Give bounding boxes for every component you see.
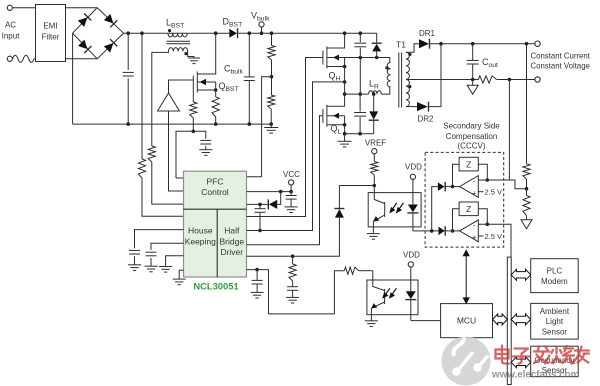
op-amp U2 channel1 [460, 176, 479, 198]
arrow bus to PLC modem [511, 269, 531, 280]
node feedback resistor tap [291, 254, 295, 258]
wire sense loop to PFC pin [176, 177, 184, 179]
node snubber diode H bottom [375, 56, 379, 60]
fuse squiggle on AC neutral [13, 55, 34, 62]
wire VCC diode anode up [277, 192, 281, 205]
core lines LBST [167, 40, 191, 42]
ground opto2 emitter [365, 320, 378, 322]
ground arrow divider [521, 220, 532, 229]
phototransistor opto2 [373, 271, 385, 291]
node snubber cap H bottom [359, 56, 363, 60]
inductor LBST secondary winding [169, 48, 188, 52]
node QH drain rail [343, 31, 347, 35]
terminal output negative [535, 77, 540, 82]
wire input cap down [127, 33, 129, 70]
capacitor snubber QH [359, 33, 361, 42]
svg-text:Driver: Driver [220, 247, 243, 257]
EMI Filter block [36, 5, 66, 62]
phase dot T1 secondary lower [408, 85, 411, 88]
terminal Vbulk [259, 22, 264, 27]
node Cbulk top [248, 31, 252, 35]
ground housekeeping 3 [159, 266, 172, 268]
resistor output divider lower [526, 189, 528, 196]
wire driver high gate [247, 58, 319, 217]
svg-text:PFC: PFC [207, 176, 224, 186]
node sense loop junction [192, 130, 196, 134]
node rectifier join [439, 42, 443, 46]
impedance Z1 block [459, 157, 478, 171]
svg-text:Keeping: Keeping [185, 236, 216, 246]
wire bridge negative to bottom rail [72, 33, 74, 124]
phase dot T1 secondary upper [408, 53, 411, 56]
wire LBST sense to PFC pin [152, 162, 184, 204]
diode opto1 feedback [335, 209, 344, 218]
op-amp U3 channel2 [460, 220, 479, 242]
diode snubber QL [373, 94, 375, 111]
phase dot T1 primary [385, 66, 388, 69]
IC NCL30051 block [184, 171, 247, 277]
node shunt sense [508, 78, 512, 82]
ground main rail [270, 124, 272, 127]
ground housekeeping cap 2 [145, 265, 158, 267]
node bulk cap input [126, 31, 130, 35]
MCU block [441, 304, 493, 338]
node bridge wire to midpoint [343, 80, 347, 84]
wire EMI filter to bridge bottom [66, 58, 98, 60]
svg-text:Light: Light [546, 317, 564, 326]
node Cout bottom [471, 78, 475, 82]
resistor QBST source sense [212, 97, 219, 117]
wire QH source row to transformer [336, 58, 390, 63]
node QL ground tap [343, 132, 347, 136]
svg-text:+: + [472, 188, 477, 197]
node rail end ground [269, 122, 273, 126]
svg-text:AC: AC [5, 21, 16, 30]
wire amp input from PFC control [169, 111, 184, 191]
optocoupler U4 box [367, 280, 418, 315]
arrow bus to occupancy sensor [511, 357, 531, 368]
wire opamp2 inverting input [478, 224, 511, 257]
wire Z1 left feedback [453, 164, 460, 186]
wire housekeeping cap pin 1 [135, 230, 184, 249]
diode DBST [229, 29, 237, 38]
node opamp1 input [451, 185, 455, 189]
capacitor dimming pin filter [256, 270, 258, 281]
ground VCC cap [285, 206, 298, 208]
arrow MCU to bus [493, 314, 508, 325]
ground sense filter [199, 149, 212, 151]
capacitor housekeeping 1 [129, 249, 140, 251]
capacitor snubber QL [359, 94, 361, 111]
op-amp PFC current amplifier [158, 93, 180, 111]
svg-text:2.5 V: 2.5 V [485, 188, 503, 197]
bus bar [507, 257, 511, 384]
watermark text elecfans [496, 346, 590, 364]
resistor output divider upper [526, 44, 528, 164]
svg-text:VCC: VCC [283, 170, 300, 179]
bridge diode upper-right [104, 14, 118, 28]
svg-text:House: House [188, 226, 213, 236]
svg-text:+: + [472, 233, 477, 242]
svg-text:-: - [473, 221, 476, 230]
wire QBST gate down [192, 89, 194, 102]
svg-text:Constant Current: Constant Current [531, 52, 591, 61]
svg-text:Z: Z [466, 160, 471, 170]
resistor opto2 collector [344, 267, 358, 274]
wire rail DBST to Vbulk section [238, 32, 377, 34]
ground LBST secondary [188, 57, 200, 59]
wire driver low gate [247, 116, 320, 245]
node QH source [343, 65, 347, 69]
node output divider top [525, 42, 529, 46]
bridge diode lower-left [78, 39, 92, 53]
wire opto1 led to CCCV input [413, 230, 445, 232]
svg-text:Bridge: Bridge [220, 236, 245, 246]
wire DR2 cathode to output rail [429, 44, 442, 107]
wire housekeeping ground pin 3 [166, 256, 184, 267]
svg-text:2.5 V: 2.5 V [485, 232, 503, 241]
diode VCC charge [269, 200, 277, 209]
diode snubber QH [376, 33, 378, 42]
svg-text:VDD: VDD [405, 162, 422, 171]
svg-text:Filter: Filter [42, 33, 60, 42]
dashed box CCCV [425, 152, 504, 247]
diode CCCV channel1 [438, 182, 445, 191]
Occupancy Sensor block [531, 346, 579, 376]
node Vbulk terminal stub [260, 31, 264, 35]
wire Z2 right to inverting input [478, 209, 487, 225]
svg-text:Z: Z [466, 204, 471, 214]
wire VCC pin row [247, 191, 292, 193]
wire Z1 right to inverting input [478, 164, 487, 180]
resistor current shunt [478, 76, 496, 83]
node snubber cap H rail [359, 31, 363, 35]
node opamp2 input join [486, 223, 490, 227]
impedance Z2 block [459, 202, 478, 216]
Ambient Light Sensor block [531, 303, 579, 339]
capacitor housekeeping 2 [146, 251, 157, 253]
node AC sense divider tap [140, 31, 144, 35]
node CCCV channel2 input [451, 229, 455, 233]
arrow MCU to CCCV [463, 250, 469, 303]
ground feedback filter [286, 296, 299, 298]
svg-text:VREF: VREF [365, 139, 386, 148]
node QBST source [214, 88, 218, 92]
diode DR2 [417, 102, 428, 111]
wire feedback opto row [247, 218, 340, 256]
wire bottom ground rail [73, 123, 272, 125]
wire opto2 led to MCU [411, 320, 441, 322]
resistor feedback divider [292, 256, 294, 264]
transistor QH [319, 57, 323, 59]
capacitor Cout [472, 44, 474, 61]
terminal AC line bottom [7, 56, 12, 61]
svg-text:Ambient: Ambient [540, 307, 570, 316]
svg-text:EMI: EMI [43, 22, 57, 31]
svg-text:DR2: DR2 [417, 115, 434, 124]
resistor bulk divider upper [268, 46, 275, 61]
light arrows opto2 [383, 288, 396, 297]
wire current sense loop [176, 131, 206, 178]
bridge diode upper-left [77, 13, 91, 27]
wire Vbulk stub [261, 27, 263, 33]
node Cout top [471, 42, 475, 46]
PLC Modem block [531, 259, 579, 293]
svg-text:-: - [473, 176, 476, 185]
terminal VREF [372, 149, 377, 154]
node QL source [343, 123, 347, 127]
ground dimming pin filter [251, 291, 264, 293]
LED opto2 [410, 267, 412, 291]
wire dimming loop pin [247, 270, 345, 314]
wire output negative rail [497, 79, 535, 81]
node VCC cap to driver row [258, 229, 262, 233]
capacitor input filter [123, 71, 134, 73]
resistor bulk divider lower [268, 95, 275, 109]
wire housekeeping cap pin 2 [151, 243, 184, 250]
wire T1 secondary top lead [406, 44, 419, 53]
svg-text:(CCCV): (CCCV) [458, 141, 486, 150]
node opamp1 input join [486, 178, 490, 182]
wire opamp1 inverting input [478, 180, 526, 189]
capacitor VCC decouple [259, 204, 261, 208]
node bulk divider tap [270, 75, 274, 79]
bridge diode lower-right [103, 39, 117, 53]
wire driver bridge node [247, 82, 345, 231]
wire Z2 left feedback [453, 209, 460, 231]
wire AC sense resistor to PFC pin [142, 178, 184, 216]
wire EMI filter to bridge top [66, 7, 98, 9]
svg-text:Constant Voltage: Constant Voltage [531, 62, 590, 71]
wire T1 secondary bottom lead [406, 106, 417, 108]
wire divider to tap [271, 60, 273, 77]
transformer T1 secondary upper [406, 52, 409, 79]
wire main rectified rail [124, 32, 230, 34]
svg-text:Control: Control [201, 187, 229, 197]
node CCCV input split [430, 229, 434, 233]
transistor QL [319, 115, 323, 117]
node snubber diode L top [372, 92, 376, 96]
node VCC stub [289, 190, 293, 194]
terminal VDD opto1 [410, 174, 415, 179]
ground housekeeping 4 [173, 278, 186, 280]
svg-text:T1: T1 [396, 40, 406, 50]
wire AC sense down to resistor [141, 33, 143, 159]
capacitor VCC [290, 192, 292, 196]
svg-text:MCU: MCU [457, 316, 476, 326]
ground half bridge [344, 134, 346, 142]
transformer T1 secondary lower [406, 79, 409, 106]
svg-text:PLC: PLC [547, 266, 563, 275]
node Cbulk bottom [248, 122, 252, 126]
wire CCCV channel1 input [432, 187, 438, 231]
diode DR1 [419, 39, 429, 48]
diode CCCV channel2 [439, 227, 445, 236]
stub opamp2 noninverting [478, 235, 483, 237]
node input cap bottom [126, 122, 130, 126]
wire VCC stub up [290, 185, 292, 192]
node QL drain midpoint [343, 92, 347, 96]
resistor QBST gate [190, 102, 197, 118]
node dimming cap tap [255, 268, 259, 272]
bridge rectifier diamond [73, 8, 124, 59]
wire AC bottom to EMI filter [34, 58, 36, 60]
svg-text:Half: Half [224, 226, 240, 236]
node LR row cap junction [359, 92, 363, 96]
node VCC diode cathode [258, 203, 262, 207]
wire LBST secondary right to ground [188, 51, 194, 58]
capacitor sense filter [200, 139, 211, 141]
node bulk divider top [270, 31, 274, 35]
wire AC top input to EMI filter [10, 7, 36, 9]
node opto1 collector [373, 184, 377, 188]
transformer T1 primary winding [389, 62, 392, 64]
svg-text:Sensor: Sensor [542, 327, 568, 336]
resistor AC sense upper [138, 159, 145, 178]
resistor VREF pullup [373, 154, 375, 162]
arrow bus to ambient sensor [511, 314, 531, 325]
node VCC junction [279, 190, 283, 194]
inductor LBST primary winding [168, 33, 187, 37]
wire T1 center tap lead [406, 79, 478, 81]
LED opto1 [412, 179, 414, 204]
phototransistor opto1 [374, 186, 384, 204]
node snubber cap L bottom [358, 132, 362, 136]
capacitor feedback filter [292, 281, 294, 287]
transistor QBST [192, 76, 194, 90]
node output divider tap [525, 187, 529, 191]
watermark logo circle [442, 330, 491, 386]
svg-text:Secondary Side: Secondary Side [443, 121, 500, 130]
wire opto1 node to feedback diode [339, 185, 374, 187]
svg-text:VDD: VDD [403, 250, 420, 259]
terminal AC line top [7, 5, 12, 10]
node QBST source resistor to rail [214, 122, 218, 126]
wire divider tap to PFC feedback pin [247, 77, 272, 177]
wire LBST secondary left return [152, 51, 169, 146]
stub opamp1 noninverting [478, 191, 483, 193]
ground opto1 emitter [367, 233, 380, 235]
capacitor Cbulk [248, 33, 250, 77]
resistor LBST sense [148, 146, 155, 162]
wire output positive rail [430, 43, 535, 45]
svg-text:NCL30051: NCL30051 [193, 281, 238, 292]
svg-text:Modem: Modem [541, 277, 568, 286]
terminal output positive [535, 41, 540, 46]
wire divider bottom to rail [270, 109, 272, 124]
ground arrow output [472, 80, 474, 86]
svg-text:DR1: DR1 [419, 29, 436, 38]
phase dot LBST primary [168, 29, 171, 32]
svg-text:Compensation: Compensation [446, 132, 498, 141]
wire gate resistor to sense loop [192, 118, 194, 131]
light arrows opto1 [390, 203, 403, 212]
phase dot LBST secondary [184, 52, 187, 55]
svg-text:Input: Input [2, 32, 21, 41]
wire Vbulk divider upper lead [271, 33, 273, 45]
wire QL source row [345, 133, 374, 135]
terminal VDD opto2 [408, 262, 413, 267]
wire housekeeping ground pin 4 [179, 270, 183, 279]
wire output sense to inverting wire [508, 80, 510, 181]
wire divider tap to lower resistor [271, 77, 273, 95]
optocoupler U1 box [368, 193, 421, 227]
core lines T1 [398, 53, 400, 108]
node QBST drain on rail [214, 31, 218, 35]
terminal VCC [289, 180, 294, 185]
wire amp output to QBST gate [169, 80, 194, 93]
inductor LR resonant [345, 93, 369, 95]
svg-text:www.elecfans.com: www.elecfans.com [491, 370, 580, 381]
wire QBST drain [197, 33, 215, 74]
wire VCC charge diode row [247, 203, 268, 205]
ground housekeeping cap 1 [128, 264, 141, 266]
